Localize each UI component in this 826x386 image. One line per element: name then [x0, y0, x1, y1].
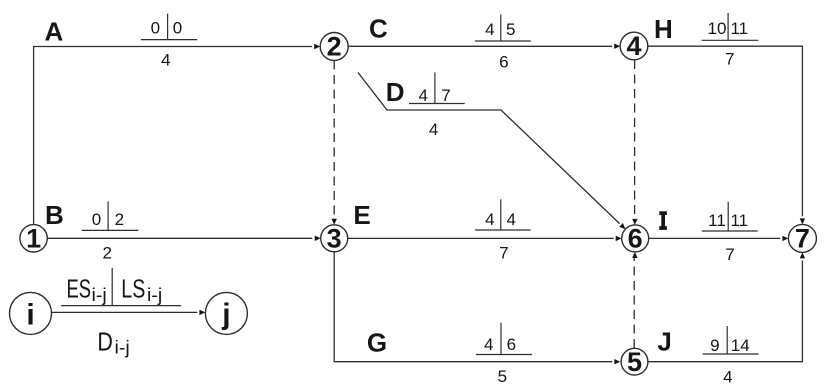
svg-text:j: j [221, 298, 230, 331]
svg-text:11: 11 [730, 19, 748, 38]
svg-text:E: E [353, 200, 370, 230]
svg-text:4: 4 [161, 50, 170, 69]
svg-text:4: 4 [429, 120, 438, 139]
svg-text:2: 2 [115, 210, 124, 229]
svg-text:9: 9 [710, 336, 719, 355]
svg-text:4: 4 [418, 86, 427, 105]
svg-text:ES: ES [67, 274, 92, 304]
svg-text:0: 0 [92, 210, 101, 229]
svg-text:H: H [654, 14, 673, 44]
svg-text:5: 5 [627, 347, 642, 377]
svg-text:LS: LS [121, 274, 145, 304]
svg-text:5: 5 [506, 20, 515, 39]
svg-text:i-j: i-j [115, 338, 130, 358]
svg-text:6: 6 [628, 223, 643, 253]
svg-text:11: 11 [730, 211, 748, 230]
svg-text:4: 4 [485, 210, 494, 229]
svg-text:0: 0 [173, 19, 182, 38]
svg-text:C: C [369, 14, 388, 44]
svg-text:3: 3 [327, 223, 342, 253]
svg-text:10: 10 [708, 19, 727, 38]
svg-text:11: 11 [708, 211, 726, 230]
svg-text:B: B [45, 200, 64, 230]
svg-text:A: A [45, 17, 64, 47]
svg-text:5: 5 [498, 367, 507, 386]
svg-text:1: 1 [26, 223, 41, 253]
svg-text:7: 7 [725, 245, 734, 264]
svg-text:D: D [386, 77, 405, 107]
svg-text:J: J [657, 327, 671, 357]
svg-text:D: D [97, 326, 113, 356]
svg-text:6: 6 [507, 335, 516, 354]
svg-text:6: 6 [499, 52, 508, 71]
svg-text:7: 7 [441, 86, 450, 105]
svg-text:4: 4 [484, 335, 493, 354]
svg-text:0: 0 [151, 19, 160, 38]
svg-text:i-j: i-j [147, 285, 162, 305]
svg-text:2: 2 [327, 32, 342, 62]
svg-text:i-j: i-j [92, 285, 107, 305]
svg-text:7: 7 [499, 243, 508, 262]
svg-text:2: 2 [102, 243, 111, 262]
svg-text:4: 4 [723, 367, 732, 386]
svg-text:i: i [26, 298, 34, 331]
svg-text:14: 14 [731, 336, 750, 355]
svg-text:4: 4 [506, 210, 515, 229]
svg-text:G: G [367, 327, 387, 357]
svg-text:7: 7 [795, 223, 810, 253]
svg-text:7: 7 [725, 49, 734, 68]
svg-text:4: 4 [485, 20, 494, 39]
svg-text:4: 4 [626, 31, 641, 61]
